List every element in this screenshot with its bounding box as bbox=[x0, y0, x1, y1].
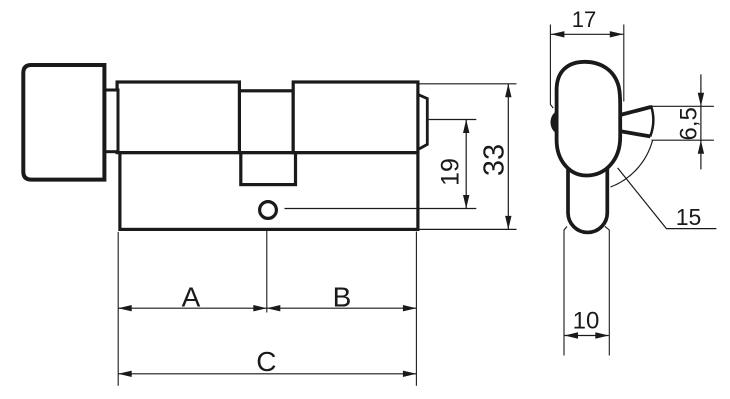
extension line 10 right bbox=[605, 226, 610, 355]
dimension text 17 bbox=[572, 7, 596, 32]
dimension 19 line bbox=[463, 120, 469, 209]
extension line 6,5 bottom bbox=[652, 139, 714, 141]
svg-text:17: 17 bbox=[572, 7, 596, 32]
rotation sweep arc bbox=[611, 141, 653, 188]
extension line bottom middle (A/B split) bbox=[266, 231, 268, 313]
dimension text 19 bbox=[437, 158, 465, 186]
profile foot (front view) bbox=[568, 163, 607, 232]
dimension text 10 bbox=[573, 308, 600, 335]
profile body (front view) bbox=[557, 62, 621, 176]
thumbturn wing top edge (front view) bbox=[621, 107, 651, 115]
svg-text:33: 33 bbox=[479, 144, 511, 176]
extension line 6,5 top bbox=[652, 105, 714, 107]
cam follower notch below body bbox=[241, 153, 296, 185]
dimension text C bbox=[256, 346, 276, 377]
svg-text:6,5: 6,5 bbox=[676, 107, 703, 140]
knob collar bump on left edge bbox=[551, 111, 558, 134]
thumbturn wing outer cap arc bbox=[650, 105, 653, 136]
upper body rect right bbox=[293, 82, 418, 153]
plug tip tab at right end bbox=[418, 95, 427, 150]
thumbturn knob (side view) bbox=[23, 65, 104, 180]
neck between knob and body bbox=[104, 90, 118, 152]
dimension text B bbox=[333, 282, 352, 313]
extension line 10 left bbox=[564, 227, 567, 356]
leader line from screw hole to 19 dim bbox=[285, 208, 477, 210]
extension line 33 top bbox=[420, 83, 517, 85]
dimension text 33 bbox=[479, 144, 511, 176]
middle recessed section bbox=[239, 91, 293, 153]
cylinder lower body (side view) bbox=[120, 153, 418, 230]
upper body rect left bbox=[117, 82, 239, 153]
svg-text:10: 10 bbox=[573, 308, 600, 335]
dimension C line bbox=[118, 371, 416, 377]
leader line 15 bbox=[618, 168, 717, 229]
dimension 33 line bbox=[505, 84, 511, 230]
dimension 6,5 line with outside arrows bbox=[698, 74, 704, 169]
thumbturn wing bottom edge bbox=[621, 131, 651, 136]
extension line bottom right bbox=[415, 232, 417, 386]
dimension 10 line bbox=[565, 332, 609, 338]
extension line 19 top (from plug tip) bbox=[429, 119, 477, 121]
dimension text 6,5 bbox=[676, 107, 703, 140]
extension line 17 left bbox=[550, 25, 553, 109]
dimension 17 line bbox=[551, 31, 623, 37]
svg-text:C: C bbox=[256, 346, 276, 377]
dimension text A bbox=[182, 282, 201, 313]
svg-text:B: B bbox=[333, 282, 352, 313]
extension line bottom left bbox=[117, 232, 119, 386]
extension line 33 bottom bbox=[420, 228, 517, 230]
svg-text:A: A bbox=[182, 282, 201, 313]
svg-text:15: 15 bbox=[676, 204, 702, 230]
dimension A/B line bbox=[118, 305, 416, 311]
extension line 17 right bbox=[623, 25, 625, 102]
svg-text:19: 19 bbox=[437, 158, 465, 186]
dimension text 15 bbox=[676, 204, 702, 230]
fixing screw hole bbox=[260, 202, 277, 219]
